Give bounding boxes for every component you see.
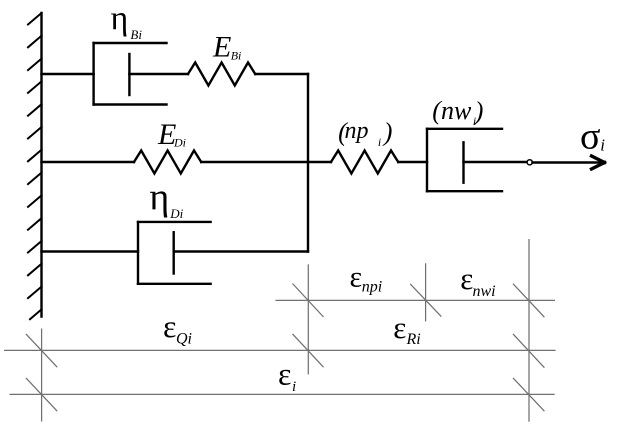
tick at (425.6,300)	[410, 284, 441, 317]
node bus (right vertical junction line)	[307, 74, 309, 252]
wire: wall to spring E_Di	[42, 161, 135, 163]
wire: wall to dashpot eta_Di	[42, 250, 139, 252]
label eps_i	[278, 356, 296, 396]
wire: spring E_Di to node bus	[201, 161, 308, 163]
label eta_Bi	[111, 0, 143, 42]
tick at (529,350)	[513, 334, 544, 368]
label (nw_i)	[432, 96, 483, 128]
svg-text:ε: ε	[460, 261, 473, 296]
svg-text:Bi: Bi	[130, 27, 142, 42]
svg-text:Bi: Bi	[231, 48, 242, 62]
label sigma_i	[580, 116, 605, 158]
svg-text:Di: Di	[173, 135, 186, 149]
svg-text:η: η	[149, 177, 169, 219]
label eps_Ri	[393, 310, 421, 348]
dimension extension line at output terminal (x=529)	[528, 239, 530, 422]
svg-text:npi: npi	[362, 278, 382, 295]
svg-text:ε: ε	[350, 261, 363, 294]
arrowhead of sigma_i	[592, 156, 605, 169]
label eps_nwi	[460, 261, 495, 300]
dimension extension line at node bus (x=308)	[307, 264, 309, 374]
svg-text:Di: Di	[169, 206, 183, 221]
svg-text:i: i	[378, 135, 381, 149]
svg-text:nwi: nwi	[473, 283, 496, 300]
svg-text:ε: ε	[278, 356, 291, 392]
wire: wall to dashpot eta_Bi	[42, 73, 94, 75]
wire: spring np to dashpot nw	[398, 161, 427, 163]
svg-text:): )	[473, 97, 484, 126]
svg-text:Ri: Ri	[406, 331, 421, 348]
wire: spring E_Bi to node bus	[255, 73, 308, 75]
svg-text:i: i	[600, 136, 605, 155]
tick at (529,300)	[513, 284, 544, 318]
spring (np_i)	[331, 151, 398, 174]
label eta_Di	[149, 177, 183, 222]
wire: terminal to arrow (stress axis)	[533, 161, 601, 163]
label eps_Qi	[163, 308, 192, 348]
svg-text:σ: σ	[580, 116, 600, 158]
svg-text:Qi: Qi	[176, 331, 192, 348]
svg-text:): )	[382, 118, 393, 147]
svg-text:(nw: (nw	[432, 96, 472, 125]
dimension extension line at wall (x=41.5)	[4, 239, 556, 422]
dimension line row: eps_npi / eps_nwi (y=300.4)	[275, 299, 555, 301]
fixed wall support	[28, 13, 42, 319]
svg-text:np: np	[345, 118, 369, 144]
tick at (529,394)	[513, 378, 544, 411]
tick at (41.5,350)	[26, 334, 57, 367]
wire: node bus to spring np	[308, 161, 331, 163]
dashpot (nw_i)	[427, 129, 527, 191]
dimension line row: eps_i (y=394.4)	[10, 393, 555, 395]
tick at (41.5,394)	[26, 378, 57, 411]
label E_Di	[157, 118, 186, 151]
svg-text:i: i	[292, 379, 296, 395]
spring E_Bi	[188, 63, 255, 86]
label E_Bi	[212, 31, 241, 64]
svg-text:ε: ε	[393, 310, 406, 345]
svg-text:η: η	[111, 0, 129, 37]
dimension extension line between np and nw (x=425.6)	[425, 263, 427, 321]
dimension line row: eps_Qi / eps_Ri (y=350.4)	[4, 349, 556, 351]
output terminal node (small circle)	[527, 160, 532, 165]
dashpot eta_Bi	[94, 43, 188, 105]
dashpot eta_Di	[138, 222, 308, 284]
tick at (308,300)	[293, 284, 324, 318]
label eps_npi	[350, 261, 383, 296]
spring E_Di	[134, 151, 201, 174]
svg-text:E: E	[212, 31, 231, 64]
label (np_i)	[338, 118, 392, 150]
svg-text:ε: ε	[163, 308, 176, 344]
tick at (308,350)	[293, 334, 324, 367]
